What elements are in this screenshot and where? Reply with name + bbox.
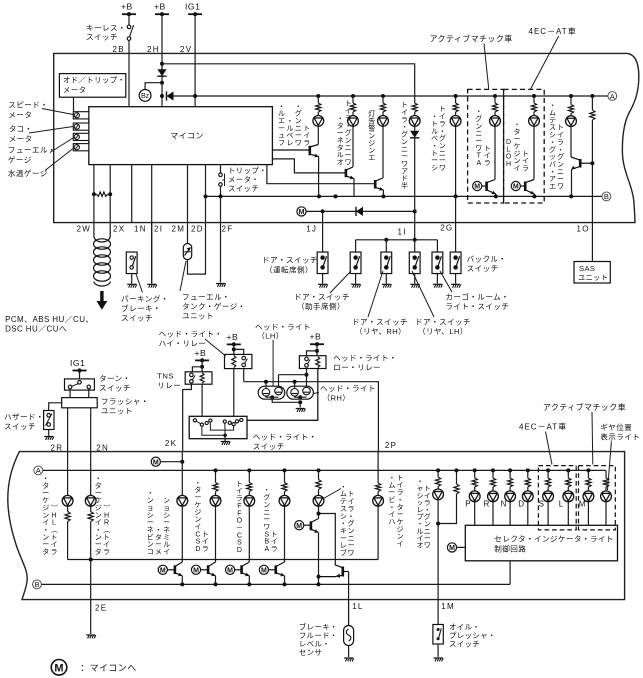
M circle T2 [191, 565, 200, 574]
svg-text:+B: +B [195, 348, 207, 358]
wire 2G continues below [455, 196, 457, 222]
svg-text:B: B [34, 580, 39, 589]
svg-text:シ: シ [431, 165, 438, 172]
svg-text:イ: イ [388, 512, 395, 519]
wire TNS coil to headlight switch [201, 384, 203, 416]
svg-text:バックル・: バックル・ [467, 255, 507, 264]
svg-text:ユニット: ユニット [578, 273, 608, 282]
junction at M line [413, 209, 417, 213]
svg-text:セレクタ・インジケータ・ライト: セレクタ・インジケータ・ライト [494, 534, 614, 543]
svg-text:イ: イ [345, 108, 352, 115]
bus B (top box) [206, 195, 602, 197]
svg-text:ジ: ジ [95, 505, 102, 512]
svg-text:ン: ン [475, 123, 482, 130]
svg-text:ラ: ラ [424, 499, 431, 507]
svg-text:ネ: ネ [337, 136, 344, 144]
junction emitters [317, 575, 321, 579]
svg-text:ワ: ワ [424, 542, 431, 550]
svg-text:ニ: ニ [295, 125, 302, 132]
svg-text:スイッチ: スイッチ [121, 314, 153, 323]
svg-text:ル: ル [278, 111, 285, 118]
svg-text:ト: ト [397, 475, 404, 482]
svg-text:・: ・ [397, 497, 404, 504]
svg-text:R: R [484, 500, 490, 509]
wire airbag lamp to transistor collector [570, 127, 572, 158]
wire sensor to ground [348, 646, 350, 658]
svg-text:ラ: ラ [271, 545, 278, 553]
svg-text:ア: ア [549, 175, 556, 183]
wire parallel resistor join [438, 494, 456, 524]
lamp turn indicator LH [62, 495, 73, 506]
lamp DSC indicator [210, 495, 221, 506]
svg-text:ト: ト [522, 151, 529, 158]
svg-text:表示ライト: 表示ライト [600, 432, 640, 442]
bus A (warning lamp feed) [174, 95, 608, 97]
svg-text:ハ: ハ [388, 519, 395, 526]
junction 1J takeoff [321, 209, 325, 213]
wire 1N to ground [131, 274, 133, 284]
resistor AT warn [494, 96, 496, 103]
lamp oil pressure warning [433, 489, 444, 500]
resistor HOLD [533, 96, 535, 103]
svg-text:ト: ト [401, 102, 408, 109]
wire IG1 to turn switch [79, 371, 81, 381]
svg-text:メータ: メータ [9, 135, 33, 144]
bus A (lower box) [43, 469, 606, 471]
svg-text:イ: イ [424, 493, 431, 500]
svg-text:ン: ン [147, 542, 154, 549]
svg-text:ー: ー [348, 543, 355, 550]
svg-text:ニ: ニ [557, 169, 564, 176]
svg-text:イ: イ [522, 158, 529, 165]
gauge output connector stubs [73, 112, 89, 119]
junction AT warn at bus A [493, 94, 497, 98]
junction ABS at bus A [283, 468, 287, 472]
SAS unit box [574, 262, 610, 284]
svg-text:M: M [513, 184, 519, 191]
selector lamp column L [566, 468, 570, 472]
svg-text:シ: シ [340, 513, 347, 520]
leader brake system label [324, 489, 342, 499]
junction SAS at bus A [590, 94, 594, 98]
svg-text:ニ: ニ [401, 146, 408, 153]
wire T5 emitter down [318, 533, 320, 577]
resistor SAS column [591, 96, 593, 110]
svg-text:ド: ド [401, 176, 408, 183]
svg-text:ー: ー [155, 542, 162, 549]
junction fuel warn at bus A [316, 94, 320, 98]
svg-text:ブレーキ・: ブレーキ・ [121, 303, 161, 313]
ground headlamps [296, 409, 306, 412]
svg-text:イ: イ [397, 541, 404, 548]
selector lamp column N [508, 468, 512, 472]
diode on 2H line [157, 69, 166, 76]
svg-text:ッ: ッ [549, 154, 556, 161]
svg-text:イ: イ [42, 520, 49, 527]
svg-text:ジ: ジ [42, 505, 49, 512]
svg-text:ン: ン [424, 521, 431, 528]
transistor T5 brake [304, 519, 319, 533]
svg-text:・: ・ [431, 114, 438, 121]
leader fuel gauge [50, 138, 73, 153]
svg-text:制御回路: 制御回路 [494, 543, 526, 553]
svg-text:ラ: ラ [401, 116, 408, 124]
resistor high beam [376, 483, 381, 492]
svg-text:コ: コ [147, 548, 154, 556]
wire 2E to ground [90, 560, 92, 600]
svg-text:ラ: ラ [345, 114, 352, 122]
svg-text:：マイコンへ: ：マイコンへ [80, 663, 136, 673]
svg-text:ケ: ケ [514, 142, 521, 150]
ground brake fluid sensor [344, 658, 354, 661]
svg-text:H: H [506, 161, 511, 168]
svg-text:ト: ト [431, 121, 438, 128]
ground 2F [216, 284, 226, 287]
svg-text:（助手席側）: （助手席側） [297, 301, 345, 311]
svg-text:・: ・ [549, 169, 556, 176]
ground 2I [147, 284, 157, 287]
buckle switch [450, 252, 461, 273]
svg-text:（RH）: （RH） [323, 394, 351, 403]
wires into RH bulbs [294, 382, 296, 389]
wire flasher to hazard switch [49, 403, 62, 411]
svg-text:ン: ン [368, 133, 375, 140]
svg-text:4EC－AT車: 4EC－AT車 [519, 421, 567, 431]
svg-text:・: ・ [549, 103, 556, 110]
transistor engine lamp [375, 178, 383, 191]
wires into LH bulbs [265, 382, 267, 389]
svg-text:P: P [465, 500, 471, 509]
svg-text:N: N [501, 500, 507, 509]
keyless switch [128, 14, 130, 25]
ground headlight switch [221, 442, 231, 445]
svg-text:イ: イ [303, 133, 310, 140]
svg-text:）: ） [102, 504, 110, 511]
svg-text:マイコン: マイコン [170, 132, 204, 141]
svg-text:ッ: ッ [417, 500, 424, 507]
label ABS warning light (vertical) [263, 487, 277, 553]
svg-text:ン: ン [194, 517, 201, 524]
label brake system warning light (vertical) [340, 484, 355, 557]
svg-text:ト: ト [424, 486, 431, 493]
bus B terminal B circle [602, 192, 611, 201]
svg-text:M: M [193, 567, 199, 574]
wire 2H branch to half-door column [162, 64, 415, 101]
dashed box 4EC-AT (S,L lamps) [538, 466, 576, 530]
oil pressure switch [433, 625, 443, 645]
leader headlight LH [272, 340, 274, 387]
svg-text:ラ: ラ [236, 495, 243, 503]
svg-text:キーレス・: キーレス・ [86, 24, 126, 33]
base wire engine from microcomputer [267, 165, 375, 184]
wire 2D column [205, 165, 207, 223]
svg-text:灯: 灯 [368, 109, 375, 118]
leader 4EC-AT [530, 36, 558, 89]
svg-text:2G: 2G [440, 224, 453, 233]
diode half-door [410, 131, 419, 138]
junction extra on bus B [334, 194, 338, 198]
svg-text:・: ・ [155, 527, 162, 534]
wire low relay coil down to headlight switch (gray) [247, 369, 318, 421]
svg-text:B: B [264, 539, 269, 546]
svg-text:スイッチ: スイッチ [467, 264, 499, 273]
junction engine lamp at bus A [381, 94, 385, 98]
svg-text:（LH）: （LH） [257, 332, 284, 341]
svg-text:ン: ン [368, 148, 375, 155]
svg-text:M: M [153, 459, 159, 466]
svg-text:ム: ム [549, 109, 556, 117]
svg-text:テ: テ [549, 116, 556, 124]
leader Activematic [484, 44, 489, 90]
wire airbag emitter to bus B [571, 169, 573, 196]
svg-text:ラ: ラ [557, 138, 564, 146]
svg-text:・: ・ [388, 504, 395, 511]
svg-text:ワ: ワ [557, 183, 564, 191]
bus A terminal A circle [608, 92, 617, 101]
leader high relay [205, 339, 226, 356]
base wire alternator from microcomputer [272, 159, 346, 173]
svg-text:ロー・リレー: ロー・リレー [333, 363, 381, 372]
svg-text:ネ: ネ [147, 526, 154, 534]
dashed box 4EC-AT (HOLD) [504, 89, 545, 203]
svg-text:1L: 1L [352, 602, 364, 611]
svg-text:ー: ー [295, 133, 302, 140]
junction 2D at bus B [204, 194, 208, 198]
wire M to selector box [457, 546, 466, 548]
svg-text:ム: ム [388, 481, 395, 489]
flasher unit box [62, 398, 97, 408]
svg-text:（運転席側）: （運転席側） [265, 264, 313, 274]
label AT warning light (vertical) [475, 109, 482, 167]
junction 2H at bus A [160, 94, 164, 98]
label DSC indicator light (vertical) [194, 480, 208, 553]
svg-text:水温ゲージ: 水温ゲージ [8, 168, 48, 178]
wires rail to switches [355, 240, 357, 252]
svg-text:イ: イ [484, 153, 491, 160]
svg-text:・: ・ [345, 123, 352, 130]
headlamp ground wires [270, 395, 274, 399]
wire 2X column [109, 165, 111, 223]
svg-text:C: C [237, 532, 242, 539]
svg-text:S: S [237, 540, 242, 547]
resistor between 2W and 2X [92, 192, 96, 196]
resistor half-door [414, 101, 416, 104]
svg-text:D: D [506, 139, 511, 146]
bus A terminal circle (lower) [34, 466, 43, 475]
resistor DSC indicator [215, 470, 217, 482]
svg-text:ワ: ワ [439, 164, 446, 172]
svg-text:H: H [104, 512, 109, 519]
svg-text:S: S [264, 531, 269, 538]
svg-text:ー: ー [424, 535, 431, 542]
svg-text:アクティブマチック車: アクティブマチック車 [430, 34, 513, 44]
svg-text:・: ・ [194, 480, 201, 487]
svg-text:ル: ル [163, 542, 170, 549]
svg-text:ト: ト [348, 491, 355, 498]
label turn indicator RH (vertical) [95, 476, 110, 557]
terminal +B headlight high relay [227, 332, 241, 347]
wire to buzzer [145, 83, 162, 90]
door switch passenger [350, 252, 361, 273]
ground 2E [86, 635, 96, 638]
svg-text:ン: ン [557, 161, 564, 168]
svg-text:ト: ト [236, 481, 243, 488]
svg-text:ラ: ラ [51, 548, 58, 556]
svg-text:・: ・ [388, 475, 395, 482]
svg-text:イ: イ [397, 482, 404, 489]
svg-text:ドア・スイッチ: ドア・スイッチ [262, 255, 318, 264]
resistor oil pressure lamp [437, 470, 439, 477]
svg-text:ニ: ニ [439, 150, 446, 157]
svg-text:・: ・ [42, 476, 49, 483]
svg-text:イ: イ [51, 542, 58, 549]
svg-text:ー: ー [401, 154, 408, 161]
svg-text:C: C [195, 531, 200, 538]
svg-text:・: ・ [340, 521, 347, 528]
svg-text:M: M [296, 523, 302, 530]
svg-text:ー: ー [431, 158, 438, 165]
door switch driver side [317, 252, 328, 273]
svg-text:2W: 2W [77, 225, 92, 234]
svg-text:S: S [196, 539, 201, 546]
low beam link line [279, 374, 307, 376]
resistor airbag [570, 96, 572, 105]
headlight high relay box [225, 354, 252, 368]
svg-text:ト: ト [431, 150, 438, 157]
transistor fuel warn [272, 145, 318, 158]
svg-text:イ: イ [236, 488, 243, 495]
wire T1 emitter to bus B [181, 576, 183, 585]
terminal +B (2H feed) [154, 2, 169, 17]
wire +B to TNS relay [201, 360, 203, 371]
svg-text:ジ: ジ [514, 151, 521, 158]
lamp DSC-OFF [244, 495, 255, 506]
svg-text:ー: ー [263, 517, 270, 524]
svg-text:+B: +B [154, 2, 166, 12]
wire 2R into box to turn lamp LH [67, 452, 69, 496]
svg-text:ベ: ベ [431, 135, 438, 143]
svg-text:シ: シ [147, 512, 154, 519]
svg-text:・: ・ [439, 128, 446, 135]
svg-text:ス: ス [340, 505, 347, 513]
label fuel level warning light (vertical) [278, 103, 310, 147]
selector lamp column gear [605, 470, 607, 478]
svg-text:タンク・ゲージ・: タンク・ゲージ・ [182, 302, 246, 311]
svg-text:2F: 2F [222, 225, 234, 234]
wire emitter to bus B [382, 190, 384, 196]
legend M = to microcomputer [51, 660, 67, 676]
wire HOLD emitter to bus B [533, 194, 535, 196]
leader door sw passenger [330, 271, 351, 293]
svg-text:・: ・ [340, 484, 347, 491]
junction HOLD at bus A [532, 94, 536, 98]
svg-text:ョ: ョ [163, 505, 170, 512]
diode on M line [356, 207, 363, 216]
svg-text:メータ: メータ [63, 85, 86, 94]
wire fuel unit loop to 2D [188, 223, 206, 275]
wires turn switch to flasher [69, 389, 71, 398]
resistor seat belt [455, 96, 457, 103]
svg-text:ン: ン [147, 498, 154, 505]
label combination meter illumination (vertical) [147, 490, 170, 556]
lower combination box outline [8, 452, 625, 600]
svg-text:+B: +B [310, 332, 322, 342]
svg-text:1J: 1J [306, 225, 317, 234]
svg-text:エ: エ [549, 184, 556, 191]
svg-text:IG1: IG1 [70, 358, 85, 368]
transistor T3 [235, 562, 250, 576]
wire DSC-OFF lamp to T3 collector [248, 506, 250, 562]
wire AT lamp to transistor [494, 126, 496, 179]
leader cargo room [440, 271, 452, 292]
svg-text:・: ・ [95, 527, 102, 534]
lamp fuel level warning [313, 116, 324, 127]
svg-text:ー: ー [439, 158, 446, 165]
svg-text:エ: エ [368, 155, 375, 162]
wire 1I drop [414, 211, 416, 222]
bus B terminal circle (lower) [33, 580, 42, 589]
svg-text:TNS: TNS [157, 372, 173, 381]
svg-text:・: ・ [417, 521, 424, 528]
label airbag system warning light (vertical) [549, 103, 564, 191]
svg-text:イ: イ [557, 132, 564, 139]
svg-text:・: ・ [549, 139, 556, 146]
svg-text:M: M [160, 567, 166, 574]
svg-text:ト: ト [345, 101, 352, 108]
leader gear position [608, 442, 612, 491]
svg-text:ャ: ャ [417, 486, 424, 493]
leader headlight RH [314, 393, 320, 394]
buzzer Bz [139, 90, 151, 102]
svg-text:ー: ー [340, 535, 347, 542]
headlight switch box [189, 416, 247, 438]
svg-text:ル: ル [337, 152, 344, 159]
wire 2N (flasher out RH) [90, 408, 92, 452]
svg-text:・: ・ [263, 487, 270, 494]
svg-text:ス: ス [549, 124, 556, 132]
wire TNS switch out to 2K [183, 384, 192, 451]
svg-text:ー: ー [42, 490, 49, 497]
leader parking brake [136, 274, 143, 293]
svg-text:レ: レ [286, 140, 293, 147]
svg-text:DSC HU／CUへ: DSC HU／CUへ [5, 324, 67, 333]
svg-text:ー: ー [42, 542, 49, 549]
trip meter switch [219, 173, 223, 177]
wire low relay switch to low beam line [306, 369, 308, 375]
svg-text:ル: ル [431, 128, 438, 135]
svg-text:ー: ー [345, 152, 352, 159]
microcomputer box (マイコン) [89, 107, 273, 165]
svg-text:ア: ア [401, 167, 408, 175]
transistor T4 [269, 562, 285, 576]
label DSC-OFF light (vertical) [236, 481, 243, 554]
wire lamp to transistor [382, 126, 384, 178]
svg-text:ル: ル [417, 528, 424, 535]
leader rear RH [368, 271, 383, 317]
svg-text:プ: プ [417, 513, 424, 521]
svg-text:ギヤ位置: ギヤ位置 [600, 422, 632, 432]
junction alternator at bus A [351, 94, 355, 98]
lamp ABS warning [279, 495, 290, 506]
svg-text:ニ: ニ [348, 535, 355, 542]
junction oil pressure at bus A [436, 468, 440, 472]
wire 2R (flasher out LH) [67, 408, 69, 452]
svg-text:フューエル・: フューエル・ [182, 293, 230, 302]
svg-text:ラ: ラ [103, 548, 110, 556]
M circle AT [473, 181, 482, 190]
svg-text:ワ: ワ [295, 139, 302, 147]
svg-text:ー: ー [388, 490, 395, 497]
